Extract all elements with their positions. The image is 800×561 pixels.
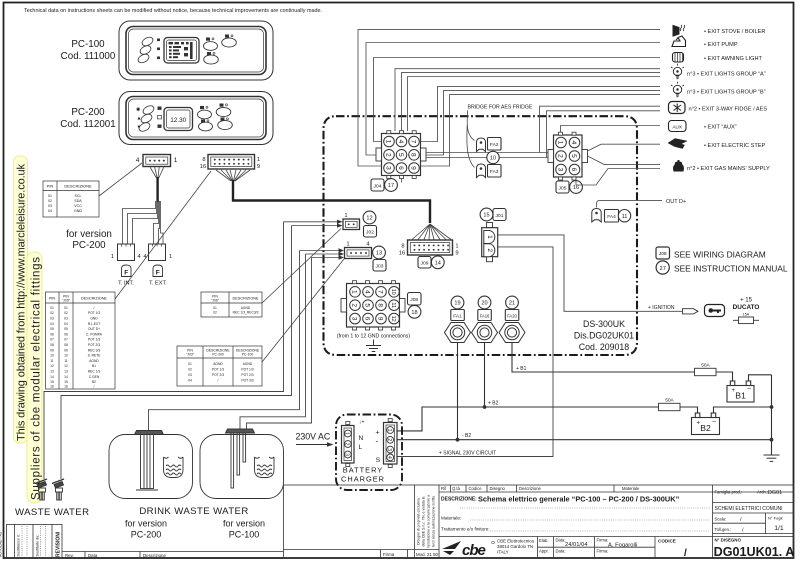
svg-text:Disegno: Disegno bbox=[490, 486, 506, 491]
icon bulb A bbox=[671, 64, 684, 79]
svg-text:F: F bbox=[156, 270, 160, 277]
svg-text:POT 1/3: POT 1/3 bbox=[88, 311, 100, 315]
svg-text:17: 17 bbox=[388, 183, 394, 189]
svg-text:• EXIT STOVE / BOILER: • EXIT STOVE / BOILER bbox=[704, 29, 765, 35]
svg-text:10: 10 bbox=[50, 354, 54, 358]
svg-text:2: 2 bbox=[386, 438, 392, 441]
svg-text:DUCATO: DUCATO bbox=[733, 304, 760, 311]
svg-text:11: 11 bbox=[64, 359, 68, 363]
balloon 12 bbox=[363, 211, 376, 224]
svg-text:OUT D+: OUT D+ bbox=[88, 327, 100, 331]
wire charger plus to fuse 50A B2 bbox=[397, 407, 658, 431]
svg-text:16: 16 bbox=[200, 164, 206, 170]
svg-text:AGND: AGND bbox=[89, 359, 99, 363]
svg-text:for version: for version bbox=[125, 519, 167, 529]
svg-text:Rev.: Rev. bbox=[65, 553, 74, 558]
probe PC-100 flange bbox=[226, 429, 255, 488]
balloon 10 bbox=[487, 151, 499, 163]
connector J04 9-way bbox=[376, 131, 426, 179]
panel PC-100 display bbox=[164, 38, 199, 64]
svg-text:9: 9 bbox=[455, 251, 458, 257]
wire J02 pin2 to waste probe2 bbox=[61, 226, 292, 479]
svg-text:"J06": "J06" bbox=[211, 299, 220, 303]
svg-text:03: 03 bbox=[50, 317, 54, 321]
leader table to CN1 bbox=[99, 163, 142, 196]
connector charger dc bbox=[384, 419, 398, 468]
sensor probe T.INT bbox=[122, 265, 132, 277]
label J01 bbox=[493, 209, 506, 221]
svg-text:Appr.: Appr. bbox=[539, 549, 549, 554]
wire fridge 1 bbox=[540, 106, 661, 152]
svg-text:Suppliers of cbe modular elect: Suppliers of cbe modular electrical fitt… bbox=[31, 257, 43, 500]
svg-text:01: 01 bbox=[64, 306, 68, 310]
wire arrows into J03 bbox=[339, 248, 345, 252]
fuse holder FA2 bbox=[477, 138, 486, 152]
svg-text:for version: for version bbox=[66, 229, 112, 240]
panel PC-200 outline bbox=[119, 92, 273, 145]
svg-text:POT 2/3: POT 2/3 bbox=[88, 343, 100, 347]
svg-text:FA3: FA3 bbox=[490, 169, 499, 175]
svg-text:14: 14 bbox=[435, 261, 441, 267]
svg-text:CHARGER: CHARGER bbox=[341, 475, 385, 484]
balloon 20 bbox=[478, 296, 491, 309]
probe waste water 1 bbox=[35, 479, 47, 500]
panel PC-100 small icons bbox=[157, 39, 160, 60]
svg-text:▲: ▲ bbox=[137, 116, 142, 122]
wire bundle CN1 fan bbox=[150, 167, 164, 178]
svg-text:↓+: ↓+ bbox=[359, 420, 365, 426]
svg-text:04: 04 bbox=[48, 209, 52, 213]
wire J02 pin1 to waste probe1 bbox=[44, 222, 284, 479]
svg-text:PC-200: PC-200 bbox=[212, 353, 224, 357]
panel PC-100 buttons left bbox=[137, 36, 155, 65]
icon electric step bbox=[668, 139, 687, 149]
svg-text:L: L bbox=[359, 444, 363, 451]
svg-text:12: 12 bbox=[390, 316, 396, 322]
svg-text:09: 09 bbox=[50, 348, 54, 352]
svg-text:+ 15: + 15 bbox=[740, 298, 753, 304]
wire J03 pin3 to drink tank PC-100 probe2 bbox=[247, 258, 312, 429]
svg-text:Cod. 209018: Cod. 209018 bbox=[579, 342, 629, 352]
balloon 19 bbox=[451, 296, 464, 309]
svg-text:05: 05 bbox=[50, 327, 54, 331]
svg-text:Data:: Data: bbox=[556, 538, 566, 543]
svg-text:◉: ◉ bbox=[136, 107, 141, 113]
connector T.EXT bbox=[149, 244, 166, 261]
svg-text:04: 04 bbox=[50, 322, 54, 326]
label J09 bbox=[418, 257, 431, 269]
svg-text:B1: B1 bbox=[735, 391, 746, 401]
svg-text:−: − bbox=[747, 386, 751, 393]
svg-text:CBE Elettrotecnica: CBE Elettrotecnica bbox=[497, 539, 534, 544]
svg-text:2: 2 bbox=[385, 153, 392, 157]
svg-text:J02: J02 bbox=[366, 230, 374, 236]
svg-text:5: 5 bbox=[570, 154, 577, 158]
svg-text:1: 1 bbox=[174, 157, 178, 164]
panel PC-200 buttons right bbox=[198, 107, 233, 130]
svg-text:C.GEN: C.GEN bbox=[89, 375, 100, 379]
svg-text:10: 10 bbox=[490, 156, 496, 162]
svg-text:15: 15 bbox=[483, 213, 489, 219]
svg-text:Scala:: Scala: bbox=[715, 517, 727, 522]
svg-text:This drawing obtained from htt: This drawing obtained from http://www.ma… bbox=[16, 164, 28, 442]
svg-text:21: 21 bbox=[509, 301, 515, 307]
wire B2 minus to bus bbox=[714, 407, 772, 413]
svg-text:02: 02 bbox=[213, 311, 217, 315]
wire lights A3 bbox=[408, 77, 661, 132]
svg-text:12: 12 bbox=[50, 364, 54, 368]
svg-text:cbe: cbe bbox=[462, 542, 486, 559]
wire electric step from J05 bbox=[588, 144, 661, 151]
svg-text:FA4: FA4 bbox=[607, 214, 616, 220]
svg-text:/: / bbox=[684, 548, 687, 559]
wire charger S to J01 pin2 bbox=[397, 247, 553, 457]
svg-text:DG01UK01. A: DG01UK01. A bbox=[714, 545, 795, 559]
svg-text:Materiale: Materiale bbox=[622, 486, 640, 491]
svg-text:01: 01 bbox=[188, 362, 192, 366]
legend 27 see instruction manual bbox=[656, 261, 669, 274]
svg-text:06: 06 bbox=[50, 332, 54, 336]
svg-text:Arch.:: Arch.: bbox=[757, 490, 768, 495]
fuse holder FA3 bbox=[477, 164, 486, 178]
fuse gland FA16 bbox=[472, 323, 498, 343]
connector J08 12-way ground bbox=[341, 281, 405, 330]
svg-text:POT 1/3: POT 1/3 bbox=[88, 338, 100, 342]
svg-text:+ B1: + B1 bbox=[516, 366, 527, 372]
svg-text:230V AC: 230V AC bbox=[296, 432, 331, 442]
wire gas 2 from J05 bbox=[576, 169, 660, 186]
svg-text:12.30: 12.30 bbox=[170, 117, 186, 124]
svg-text:POT 1/3: POT 1/3 bbox=[241, 368, 253, 372]
table J03 bbox=[177, 346, 262, 386]
svg-text:Descrizione: Descrizione bbox=[143, 553, 166, 558]
svg-text:PC-100: PC-100 bbox=[71, 39, 105, 50]
connector CN2 16-pin panel bbox=[208, 155, 255, 170]
svg-text:PIN: PIN bbox=[47, 184, 54, 189]
leader CN2 to table J09 bbox=[115, 171, 211, 299]
svg-text:10: 10 bbox=[390, 289, 396, 295]
svg-text:8: 8 bbox=[377, 303, 384, 307]
svg-text:PC-200: PC-200 bbox=[71, 107, 105, 118]
svg-text:11: 11 bbox=[390, 302, 396, 308]
label FA3 bbox=[488, 165, 502, 178]
svg-text:POT 2/3: POT 2/3 bbox=[241, 373, 253, 377]
svg-text:/: / bbox=[94, 306, 95, 310]
svg-text:Mod. 21 50: Mod. 21 50 bbox=[416, 552, 439, 557]
svg-text:1: 1 bbox=[169, 254, 172, 260]
wire fuse to B1 bbox=[716, 372, 733, 381]
cbe logo bbox=[442, 541, 494, 559]
battery B2 bbox=[692, 413, 720, 435]
svg-text:04: 04 bbox=[64, 322, 68, 326]
svg-text:N° DISEGNO: N° DISEGNO bbox=[715, 538, 742, 543]
table J06 bbox=[201, 292, 262, 317]
wire FA16 to B2 line bbox=[484, 343, 486, 408]
svg-text:OUT D+: OUT D+ bbox=[666, 199, 686, 205]
svg-text:FA2: FA2 bbox=[490, 142, 499, 148]
leader bridge bbox=[467, 111, 474, 141]
svg-text:14: 14 bbox=[64, 375, 68, 379]
svg-text:16: 16 bbox=[64, 384, 68, 388]
svg-text:BRIDGE FOR AES FRIDGE: BRIDGE FOR AES FRIDGE bbox=[468, 105, 533, 111]
wire CN1 to T.INT T.EXT nest bbox=[123, 201, 164, 244]
panel PC-200 buttons left bbox=[138, 104, 156, 133]
svg-text:02: 02 bbox=[50, 311, 54, 315]
svg-text:Codice: Codice bbox=[469, 486, 483, 491]
wire fuse to B2 plus bbox=[680, 407, 698, 413]
svg-text:15A: 15A bbox=[743, 313, 750, 317]
rotated property text bbox=[417, 495, 436, 548]
leader table J03 to J03 connector bbox=[262, 259, 344, 362]
svg-text:+ IGNITION: + IGNITION bbox=[648, 305, 675, 311]
svg-text:for version: for version bbox=[223, 519, 265, 529]
connector T.INT bbox=[118, 244, 135, 261]
panel PC-200 left icons bbox=[136, 107, 141, 131]
balloon 15 bbox=[480, 208, 493, 221]
svg-text:J09: J09 bbox=[421, 261, 429, 267]
svg-text:1: 1 bbox=[386, 429, 392, 432]
svg-text:FA20: FA20 bbox=[507, 313, 517, 318]
famiglia cell bbox=[713, 503, 794, 534]
svg-text:03: 03 bbox=[64, 317, 68, 321]
panel PC-200 clock display bbox=[164, 108, 193, 131]
svg-text:3: 3 bbox=[385, 166, 392, 170]
svg-text:03: 03 bbox=[48, 204, 52, 208]
svg-text:Sostituisce il:: Sostituisce il: bbox=[17, 534, 21, 556]
wire J01 pin1 to ignition bbox=[498, 235, 682, 311]
svg-text:1: 1 bbox=[344, 432, 350, 435]
svg-text:J03: J03 bbox=[376, 264, 384, 270]
svg-text:"J09": "J09" bbox=[62, 299, 71, 303]
svg-text:ITALY: ITALY bbox=[497, 550, 509, 555]
svg-text:8: 8 bbox=[410, 153, 417, 157]
junction dot minus B2 bbox=[456, 438, 460, 442]
svg-text:8: 8 bbox=[401, 244, 404, 250]
svg-text:J08: J08 bbox=[659, 251, 667, 257]
svg-text:Materiale:: Materiale: bbox=[441, 516, 461, 521]
note: yellow highlight for vertical url text bbox=[14, 156, 28, 443]
wire B1 minus to bus bbox=[749, 375, 772, 381]
svg-text:12: 12 bbox=[64, 364, 68, 368]
svg-text:N: N bbox=[359, 435, 364, 442]
tank drink waste PC-200 bbox=[109, 435, 193, 499]
svg-text:riproduzione e la comunicazion: riproduzione e la comunicazione a bbox=[427, 495, 431, 548]
svg-text:1/1: 1/1 bbox=[774, 525, 784, 532]
label J05 bbox=[556, 181, 569, 193]
svg-text:Cod. 112001: Cod. 112001 bbox=[60, 119, 115, 130]
water symbol PC-100 bbox=[255, 457, 275, 478]
svg-text:2: 2 bbox=[351, 303, 358, 307]
sensor probe T.EXT bbox=[153, 265, 163, 277]
wire exit pump from J04 bbox=[366, 43, 660, 156]
svg-text:01: 01 bbox=[48, 194, 52, 198]
svg-text:n°2 • EXIT GAS MAINS’ SUPPLY: n°2 • EXIT GAS MAINS’ SUPPLY bbox=[687, 166, 770, 172]
svg-text:PC-200: PC-200 bbox=[131, 530, 162, 540]
svg-text:06: 06 bbox=[64, 332, 68, 336]
rev data descrizione strip bbox=[62, 552, 284, 559]
svg-text:SDA: SDA bbox=[74, 199, 82, 203]
svg-text:Data: Data bbox=[88, 553, 98, 558]
revision block bbox=[7, 525, 63, 559]
svg-text:PC-200: PC-200 bbox=[72, 240, 106, 251]
svg-text:C. POMPA: C. POMPA bbox=[86, 332, 103, 336]
wire arrow into J02 pin1 bbox=[337, 220, 343, 224]
connector J05 6-way bbox=[548, 132, 588, 180]
svg-text:Sostituito da:: Sostituito da: bbox=[36, 535, 40, 557]
wire exit stove from J04 bbox=[358, 30, 660, 166]
svg-text:27: 27 bbox=[659, 266, 665, 272]
svg-text:"J03": "J03" bbox=[186, 353, 195, 357]
label FA20 bbox=[505, 310, 519, 321]
svg-text:+: + bbox=[697, 420, 701, 426]
wire lights B1 bbox=[421, 86, 661, 141]
svg-text:8: 8 bbox=[202, 157, 205, 163]
svg-text:B1: B1 bbox=[92, 364, 96, 368]
svg-text:Firma: Firma bbox=[383, 552, 395, 557]
svg-text:AGND: AGND bbox=[213, 362, 223, 366]
svg-text:N° Fogli:: N° Fogli: bbox=[768, 516, 783, 521]
wire J03 pin1 to drink tank PC-200 probe bbox=[149, 251, 300, 431]
svg-text:• EXIT ELECTRIC STEP: • EXIT ELECTRIC STEP bbox=[704, 143, 765, 149]
balloon 17 bbox=[385, 179, 398, 192]
svg-text:3: 3 bbox=[386, 448, 392, 451]
svg-text:POT 2/3: POT 2/3 bbox=[212, 373, 224, 377]
svg-text:REVISIONI: REVISIONI bbox=[56, 531, 62, 557]
wire bundle CN2 fan bbox=[216, 170, 250, 181]
svg-text:6: 6 bbox=[570, 168, 577, 172]
svg-text:02: 02 bbox=[48, 199, 52, 203]
svg-text:+ B2: + B2 bbox=[488, 400, 499, 406]
svg-text:GND: GND bbox=[74, 209, 82, 213]
wire fridge 2 bbox=[547, 111, 661, 158]
svg-text:S. RETE: S. RETE bbox=[88, 354, 102, 358]
svg-text:12: 12 bbox=[366, 216, 372, 222]
svg-text:1: 1 bbox=[351, 290, 358, 294]
svg-text:+ SIGNAL 230V CIRCUIT: + SIGNAL 230V CIRCUIT bbox=[439, 450, 496, 456]
label J08 bbox=[408, 293, 422, 306]
svg-text:6: 6 bbox=[397, 166, 404, 170]
wire jumper J04-J05 b bbox=[426, 157, 548, 159]
svg-text:3: 3 bbox=[344, 453, 350, 456]
svg-text:REC 1/3: REC 1/3 bbox=[88, 370, 101, 374]
svg-text:Trattamento e/o finiture:: Trattamento e/o finiture: bbox=[441, 527, 490, 532]
svg-text:1: 1 bbox=[346, 242, 349, 248]
svg-text:SCL: SCL bbox=[75, 194, 82, 198]
svg-text:• EXIT PUMP: • EXIT PUMP bbox=[704, 42, 738, 48]
wire lights A2 bbox=[402, 73, 661, 131]
svg-text:S: S bbox=[376, 457, 381, 464]
svg-text:DS-300UK: DS-300UK bbox=[583, 319, 625, 329]
connector CN1 4-pin panel bbox=[143, 155, 171, 167]
wire charger minus to bus bbox=[397, 439, 771, 441]
svg-text:02: 02 bbox=[64, 311, 68, 315]
wire CN2 trunk to J09 bbox=[233, 180, 430, 223]
svg-text:07: 07 bbox=[50, 338, 54, 342]
label FA1 bbox=[451, 310, 465, 321]
connector charger mains bbox=[342, 422, 355, 467]
svg-text:terzi senza autorizzazione scr: terzi senza autorizzazione scritta bbox=[432, 496, 436, 547]
svg-text:4: 4 bbox=[386, 456, 392, 459]
svg-text:01: 01 bbox=[213, 306, 217, 310]
svg-text:7: 7 bbox=[377, 290, 384, 294]
panel PC-100 display bars bbox=[169, 42, 193, 59]
ground symbol main bbox=[764, 455, 780, 461]
svg-text:02: 02 bbox=[188, 368, 192, 372]
svg-text:50A: 50A bbox=[701, 363, 710, 369]
battery B1 bbox=[727, 381, 754, 402]
svg-text:A. Fogarolli: A. Fogarolli bbox=[608, 543, 637, 549]
svg-text:4: 4 bbox=[397, 140, 404, 144]
connector J01 bbox=[482, 223, 498, 262]
icon gas bottle bbox=[673, 160, 684, 172]
fuse gland FA1 bbox=[445, 323, 471, 343]
svg-text:4: 4 bbox=[364, 290, 371, 294]
svg-text:1: 1 bbox=[257, 157, 260, 163]
svg-text:J05: J05 bbox=[559, 185, 567, 191]
wire lights A1 bbox=[395, 69, 660, 131]
svg-text:/: / bbox=[218, 379, 219, 383]
title header row bbox=[439, 485, 794, 558]
svg-text:SCHEMI ELETTRICI COMUNI: SCHEMI ELETTRICI COMUNI bbox=[715, 506, 783, 512]
svg-text:13: 13 bbox=[64, 370, 68, 374]
label FA2 bbox=[488, 138, 502, 151]
svg-text:2: 2 bbox=[486, 248, 493, 252]
svg-text:DESCRIZIONE: DESCRIZIONE bbox=[233, 297, 259, 301]
svg-text:T. EXT.: T. EXT. bbox=[149, 281, 167, 287]
svg-text:FA1: FA1 bbox=[453, 313, 462, 319]
wire OUT D+ bbox=[597, 200, 663, 207]
svg-text:3: 3 bbox=[351, 317, 358, 321]
icon exit awning light bbox=[673, 53, 684, 63]
panel PC-100 outline bbox=[119, 21, 273, 80]
note: yellow highlight for suppliers text bbox=[27, 252, 42, 503]
svg-text:11: 11 bbox=[622, 214, 628, 220]
svg-text:Firma:: Firma: bbox=[597, 538, 609, 543]
svg-text:POT 3/3: POT 3/3 bbox=[241, 379, 253, 383]
wire exit awning from J04 bbox=[374, 58, 661, 142]
svg-text:2: 2 bbox=[344, 443, 350, 446]
wire J09 fan bbox=[412, 224, 451, 240]
tank drink waste PC-100 bbox=[200, 435, 284, 499]
label J04 bbox=[371, 179, 384, 191]
svg-text:19: 19 bbox=[454, 301, 460, 307]
table I2C pins bbox=[43, 181, 99, 217]
svg-text:Technical data on instructions: Technical data on instructions sheets ca… bbox=[24, 8, 322, 14]
svg-text:20: 20 bbox=[481, 301, 487, 307]
svg-text:PC-100: PC-100 bbox=[229, 530, 260, 540]
svg-text:Schema elettrico generale “PC-: Schema elettrico generale “PC-100 – PC-2… bbox=[478, 495, 680, 504]
panel PC-100 buttons right bbox=[204, 38, 237, 64]
svg-text:08: 08 bbox=[50, 343, 54, 347]
label FA16 bbox=[478, 310, 492, 321]
svg-text:J01: J01 bbox=[496, 213, 504, 219]
svg-text:Elab.: Elab. bbox=[539, 538, 549, 543]
wire FA1 to minus B2 line bbox=[457, 343, 459, 440]
connector J03 bbox=[345, 248, 372, 259]
svg-text:Famiglia prod.:: Famiglia prod.: bbox=[715, 490, 743, 495]
svg-text:VCC: VCC bbox=[74, 204, 82, 208]
enclosure battery charger bbox=[336, 415, 402, 491]
svg-text:/: / bbox=[94, 384, 95, 388]
connector J02 bbox=[343, 219, 360, 230]
svg-text:SEE WIRING DIAGRAM: SEE WIRING DIAGRAM bbox=[674, 250, 766, 260]
svg-text:6: 6 bbox=[364, 317, 371, 321]
svg-text:CODICE: CODICE bbox=[658, 539, 676, 544]
svg-text:16: 16 bbox=[573, 185, 579, 191]
wire J03 pin2 to drink tank PC-100 probe bbox=[240, 254, 306, 429]
svg-text:- B2: - B2 bbox=[462, 433, 471, 439]
svg-text:DG01: DG01 bbox=[768, 490, 782, 496]
